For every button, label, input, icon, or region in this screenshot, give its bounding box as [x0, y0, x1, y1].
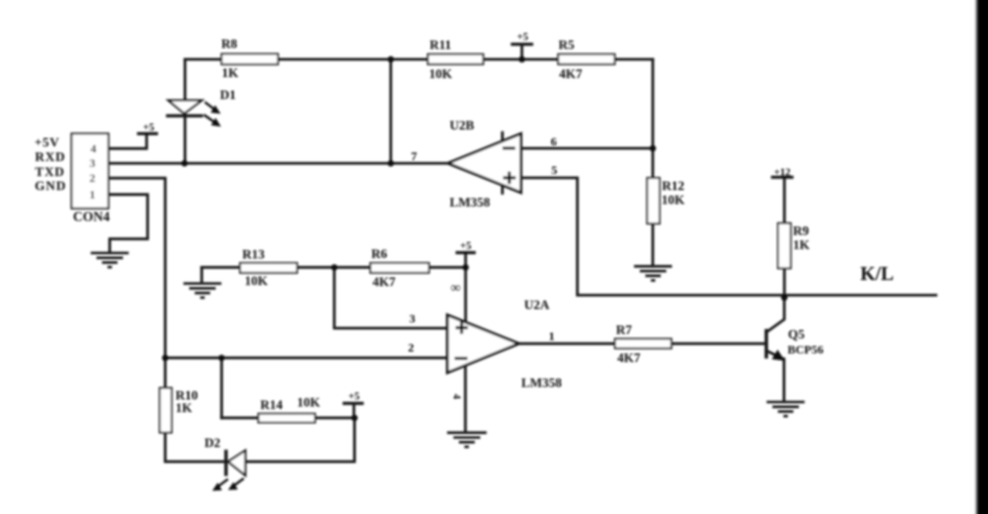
- svg-text:+5: +5: [348, 392, 359, 403]
- svg-text:1K: 1K: [793, 237, 811, 252]
- svg-text:10K: 10K: [662, 192, 686, 207]
- node pin7 vertical: [388, 160, 394, 166]
- wire pin2 line of U2A: [165, 357, 447, 360]
- resistor R5: [558, 37, 615, 81]
- svg-text:1: 1: [89, 188, 95, 202]
- wire Q5 collector: [767, 298, 784, 332]
- svg-text:10K: 10K: [297, 395, 321, 410]
- svg-text:3: 3: [89, 156, 95, 170]
- svg-text:LM358: LM358: [521, 375, 562, 390]
- svg-text:4K7: 4K7: [617, 350, 641, 365]
- svg-text:2: 2: [89, 171, 95, 185]
- power +12: [771, 167, 794, 178]
- LED D2: [204, 435, 245, 491]
- resistor R11: [428, 37, 483, 81]
- wire pin7 line CON4 to U2B output: [108, 162, 448, 165]
- svg-text:∞: ∞: [451, 281, 461, 296]
- svg-text:U2A: U2A: [524, 297, 550, 312]
- op-amp U2B: [448, 117, 521, 209]
- svg-text:4: 4: [90, 142, 96, 156]
- wire U2B power stub top: [501, 133, 504, 141]
- power +5 at R14: [343, 392, 364, 418]
- wire U2B power stub bottom: [501, 186, 504, 193]
- svg-text:R11: R11: [430, 37, 452, 52]
- svg-text:+5V: +5V: [35, 135, 60, 150]
- wire R14 rail: [222, 417, 355, 420]
- node D1 cathode on pin7 line: [181, 160, 187, 166]
- wire vertical node to pin7 line: [389, 59, 392, 163]
- node pin6 R12: [650, 145, 656, 151]
- svg-text:+5: +5: [460, 241, 471, 252]
- ground Q5: [767, 402, 805, 416]
- black sidebar right edge: [977, 0, 988, 514]
- wire top rail R8-R11-R5: [185, 58, 653, 61]
- svg-text:K/L: K/L: [860, 264, 894, 285]
- node TXD pin2 line: [162, 355, 168, 361]
- wire R13-R6 rail: [202, 266, 466, 269]
- wire left vertical through D1: [184, 59, 187, 163]
- op-amp U2A: [447, 297, 562, 390]
- svg-text:R9: R9: [793, 223, 809, 238]
- svg-text:TXD: TXD: [35, 164, 65, 179]
- wire CON4 pin1 to ground: [108, 195, 147, 253]
- svg-text:+5: +5: [143, 122, 154, 133]
- svg-text:R12: R12: [662, 178, 684, 193]
- LED D1: [166, 87, 236, 127]
- wire CON4 pin4 to +5: [108, 134, 146, 149]
- node R6 +5 junction: [462, 264, 468, 270]
- svg-text:10K: 10K: [245, 273, 269, 288]
- wire D2 anode to +5 node: [245, 418, 354, 462]
- svg-text:1K: 1K: [176, 400, 194, 415]
- svg-text:1K: 1K: [222, 65, 240, 80]
- wire K/L rail: [577, 294, 936, 297]
- node R14 branch: [218, 355, 224, 361]
- wire Q5 emitter to ground: [767, 351, 784, 402]
- svg-text:10K: 10K: [429, 66, 453, 81]
- resistor R14: [258, 395, 321, 423]
- svg-text:6: 6: [551, 135, 557, 149]
- wire U2A pin4 ground stub: [464, 365, 467, 432]
- node K/L collector junction: [781, 294, 787, 300]
- svg-text:D1: D1: [220, 87, 236, 102]
- svg-text:R7: R7: [616, 322, 632, 337]
- svg-text:GND: GND: [35, 178, 67, 193]
- resistor R8: [221, 36, 278, 80]
- power +5 above U2A: [456, 241, 476, 253]
- svg-text:4K7: 4K7: [372, 274, 396, 289]
- svg-text:7: 7: [411, 149, 417, 163]
- resistor R7: [615, 322, 671, 365]
- resistor R6: [370, 246, 429, 289]
- svg-text:RXD: RXD: [35, 149, 66, 164]
- power +5 above CON4: [137, 122, 158, 133]
- resistor R10: [160, 388, 198, 433]
- wire right vertical R5 to R12 to ground: [651, 59, 654, 266]
- wire CON4 pin2 TXD down: [108, 178, 165, 358]
- svg-text:D2: D2: [204, 435, 220, 450]
- wire R10 vertical to D2: [165, 358, 226, 462]
- wire node to pin3 of U2A: [334, 267, 447, 328]
- power +5 top rail: [511, 32, 533, 59]
- svg-text:U2B: U2B: [450, 117, 475, 132]
- wire U2A output through R7 to Q5 base: [519, 342, 765, 345]
- svg-text:4: 4: [451, 394, 462, 400]
- resistor R12: [647, 178, 685, 224]
- node R14 +5 junction: [351, 415, 357, 421]
- ground R12: [634, 266, 672, 280]
- wire R13 ground stub: [200, 267, 203, 282]
- ground U2A: [447, 433, 487, 447]
- svg-text:4K7: 4K7: [559, 66, 583, 81]
- svg-text:5: 5: [551, 163, 557, 177]
- ground CON4: [91, 253, 129, 267]
- transistor Q5: [766, 329, 785, 361]
- resistor R9: [778, 223, 811, 268]
- svg-text:R6: R6: [371, 246, 387, 261]
- wire R14 branch vertical: [220, 358, 223, 418]
- wire +5 down to U2A pin8: [464, 253, 467, 323]
- svg-text:CON4: CON4: [73, 209, 110, 224]
- wire +12 through R9 down to K/L node: [783, 177, 786, 297]
- svg-text:+5: +5: [517, 32, 528, 43]
- connector CON4: [72, 134, 110, 224]
- svg-text:2: 2: [408, 341, 414, 355]
- svg-text:BCP56: BCP56: [788, 343, 824, 357]
- svg-text:R5: R5: [558, 37, 574, 52]
- node R13-R6 junction: [331, 264, 337, 270]
- wire pin6 of U2B: [521, 147, 653, 150]
- resistor R13: [240, 246, 297, 288]
- svg-text:R8: R8: [221, 36, 237, 51]
- wire pin5 of U2B down to K/L rail: [521, 178, 578, 295]
- svg-text:Q5: Q5: [788, 326, 805, 341]
- node top rail: [388, 56, 394, 62]
- svg-text:1: 1: [549, 329, 555, 343]
- svg-text:3: 3: [409, 312, 415, 326]
- svg-text:LM358: LM358: [450, 195, 491, 210]
- svg-text:R13: R13: [242, 246, 265, 261]
- svg-text:R14: R14: [260, 397, 283, 412]
- node +5 tap top rail: [519, 56, 525, 62]
- ground R13: [183, 284, 221, 298]
